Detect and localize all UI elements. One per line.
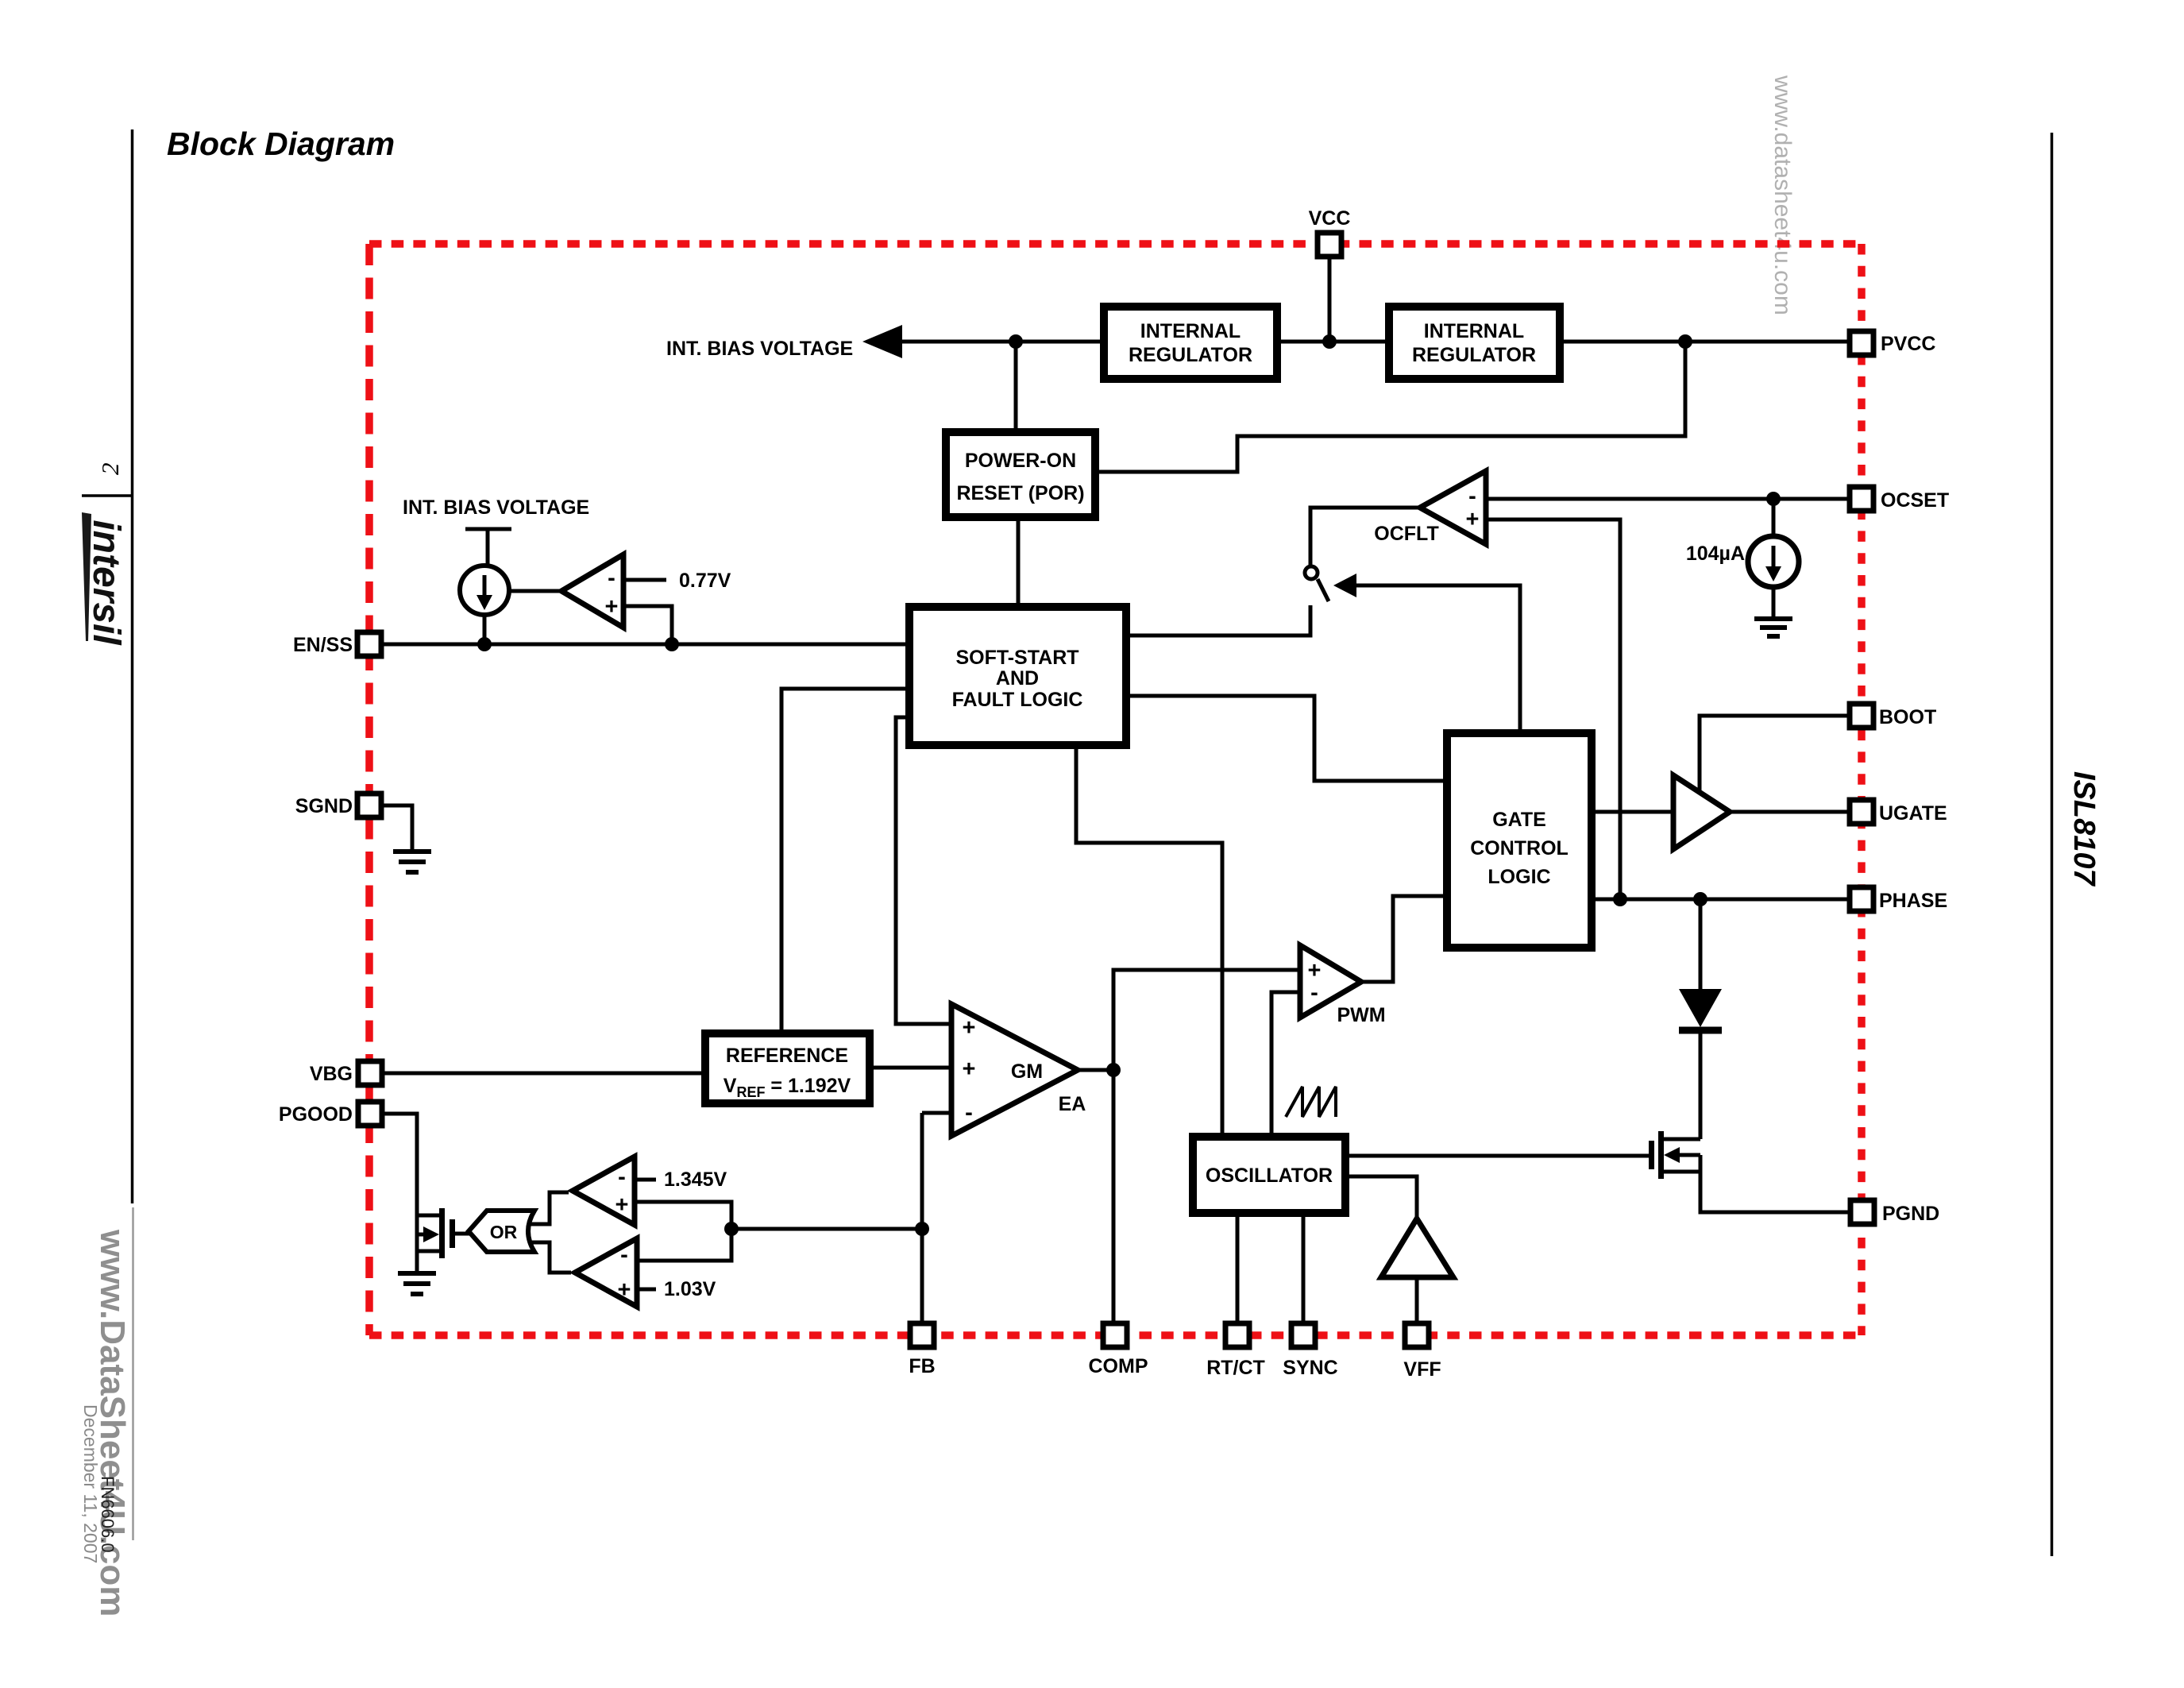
doc number FN6606.0 (rotated) <box>98 1476 118 1553</box>
chip boundary red dashed left <box>365 244 373 1335</box>
wire OCFLT output to switch <box>1310 508 1420 566</box>
svg-text:LOGIC: LOGIC <box>1488 866 1550 888</box>
pin VBG <box>310 1061 382 1085</box>
wire reference to GM mid plus input <box>866 1066 951 1070</box>
svg-text:FAULT LOGIC: FAULT LOGIC <box>952 689 1083 711</box>
pin PGND <box>1850 1200 1939 1225</box>
comparator U11 (1.03V UV) <box>575 1238 637 1307</box>
svg-text:COMP: COMP <box>1089 1355 1148 1377</box>
switch lever <box>1318 579 1329 601</box>
svg-text:INT. BIAS VOLTAGE: INT. BIAS VOLTAGE <box>403 496 589 519</box>
svg-text:SYNC: SYNC <box>1283 1357 1337 1379</box>
wire switch control from gate control logic <box>1355 585 1520 733</box>
wire oscillator to MOSFET gate <box>1345 1154 1649 1158</box>
svg-text:REGULATOR: REGULATOR <box>1412 344 1536 366</box>
pin EN/SS <box>293 632 381 656</box>
pin BOOT <box>1850 704 1936 728</box>
svg-text:SOFT-START: SOFT-START <box>955 647 1078 669</box>
wire soft-start to reference <box>781 689 913 1033</box>
sawtooth waveform <box>1286 1087 1336 1117</box>
svg-text:AND: AND <box>996 667 1039 689</box>
svg-text:VBG: VBG <box>310 1063 353 1085</box>
wire I1 to EN/SS rail <box>483 615 487 644</box>
svg-text:Block Diagram: Block Diagram <box>167 126 395 162</box>
svg-text:+: + <box>963 1056 976 1082</box>
right page rule <box>2051 133 2054 1556</box>
svg-text:GM: GM <box>1011 1060 1043 1083</box>
svg-text:INTERNAL: INTERNAL <box>1140 320 1241 342</box>
svg-text:OSCILLATOR: OSCILLATOR <box>1206 1165 1333 1187</box>
wire GM minus input from FB <box>922 1111 951 1115</box>
wire POR feed from PVCC rail <box>1097 342 1685 472</box>
svg-text:1.345V: 1.345V <box>664 1168 727 1191</box>
svg-text:SGND: SGND <box>295 795 353 817</box>
svg-text:VFF: VFF <box>1403 1358 1441 1381</box>
wire OCSET rail (U4 minus input) <box>1486 497 1850 501</box>
junction dot VCC rail <box>1322 334 1337 349</box>
svg-text:POWER-ON: POWER-ON <box>965 450 1076 472</box>
svg-text:intersil: intersil <box>85 520 127 646</box>
block GATE CONTROL LOGIC <box>1447 733 1592 948</box>
wire oscillator to PWM minus input <box>1271 992 1300 1137</box>
block SOFT-START AND FAULT LOGIC <box>909 607 1126 745</box>
gate U9 OR <box>469 1211 534 1252</box>
pin PVCC <box>1850 331 1935 355</box>
wire U3 plus input to EN/SS rail <box>623 606 672 644</box>
svg-text:UGATE: UGATE <box>1879 802 1947 825</box>
svg-text:OR: OR <box>490 1222 518 1242</box>
svg-text:FB: FB <box>909 1355 935 1377</box>
wire PHASE to diode anode <box>1699 899 1703 990</box>
wire I1 to comparator U3 <box>509 589 561 593</box>
comparator U3 (0.77V enable) <box>561 554 623 628</box>
pin OCSET <box>1850 487 1949 512</box>
wire OR bottom input from comparator U11 <box>528 1242 571 1273</box>
svg-text:PVCC: PVCC <box>1881 333 1935 355</box>
intersil logo (rotated) <box>82 512 127 646</box>
block REFERENCE <box>705 1033 870 1103</box>
wire soft-start to switch pole <box>1122 605 1310 635</box>
pin RT/CT <box>1206 1323 1265 1379</box>
svg-text:-: - <box>618 1165 626 1190</box>
gray hairline <box>132 1207 134 1540</box>
block OSCILLATOR <box>1193 1137 1345 1213</box>
pin SGND <box>295 794 381 817</box>
comparator U4 OCFLT <box>1420 471 1486 544</box>
svg-text:BOOT: BOOT <box>1879 706 1936 728</box>
wire POR bottom to soft-start <box>1017 517 1021 607</box>
svg-text:ISL8107: ISL8107 <box>2067 771 2101 887</box>
transistor Q2 (low-side) <box>1652 1131 1701 1179</box>
wire U11 plus stub <box>637 1288 656 1292</box>
ground SGND <box>393 852 431 872</box>
junction dot POR tap <box>1009 334 1023 349</box>
buffer U5 UGATE driver <box>1673 775 1730 849</box>
wire U10 plus input to FB <box>635 1202 731 1229</box>
svg-text:EN/SS: EN/SS <box>293 634 353 656</box>
watermark www.DataSheet4U.com (rotated, gray) <box>93 1229 132 1617</box>
wire U10 minus stub <box>635 1178 656 1182</box>
svg-text:RESET (POR): RESET (POR) <box>956 482 1084 504</box>
svg-text:-: - <box>965 1100 973 1126</box>
junction dot PVCC tap <box>1678 334 1692 349</box>
wire FB vertical <box>920 1113 924 1323</box>
junction dot I1/EN-SS <box>477 637 492 651</box>
wire soft-start to gate control logic <box>1122 696 1447 781</box>
switch contact circle <box>1305 566 1318 579</box>
svg-text:VCC: VCC <box>1309 207 1351 230</box>
page number 2 (rotated) <box>96 463 124 476</box>
wire EA node to COMP pin <box>1112 1070 1116 1323</box>
wire INT. BIAS VOLTAGE rail <box>901 340 1100 344</box>
wire Q2 drain up to diode <box>1699 1033 1703 1139</box>
junction dot FB <box>915 1222 929 1236</box>
svg-text:EA: EA <box>1059 1093 1086 1115</box>
wire EN/SS rail <box>382 643 913 647</box>
pin UGATE <box>1850 800 1947 825</box>
wire regulator1 to regulator2 <box>1277 340 1389 344</box>
svg-text:PGND: PGND <box>1882 1203 1939 1225</box>
svg-text:CONTROL: CONTROL <box>1470 837 1569 859</box>
svg-text:-: - <box>608 566 615 591</box>
wire EA output <box>1078 1068 1113 1072</box>
comparator U6 PWM <box>1300 945 1361 1018</box>
ground Q1 source <box>398 1273 436 1294</box>
junction dot comparators <box>724 1222 739 1236</box>
block U1 INTERNAL REGULATOR <box>1104 307 1277 379</box>
pin SYNC <box>1283 1323 1337 1379</box>
junction dot PHASE/OCFLT <box>1613 892 1627 906</box>
svg-text:+: + <box>615 1192 629 1218</box>
svg-text:-: - <box>1468 484 1476 509</box>
wire RT/CT to oscillator <box>1236 1213 1240 1323</box>
svg-text:REFERENCE: REFERENCE <box>726 1045 848 1067</box>
pin VFF <box>1403 1323 1441 1381</box>
block U2 INTERNAL REGULATOR <box>1389 307 1560 379</box>
wire SGND to ground <box>382 805 412 850</box>
junction dot U3/EN-SS <box>665 637 679 651</box>
junction dot EA/COMP <box>1106 1063 1121 1077</box>
pin FB <box>909 1323 935 1377</box>
svg-text:+: + <box>618 1277 631 1303</box>
wire U3 minus input stub <box>623 578 666 582</box>
svg-text:+: + <box>605 594 619 620</box>
svg-text:2: 2 <box>96 463 124 476</box>
part number ISL8107 (rotated) <box>2067 771 2101 887</box>
svg-text:RT/CT: RT/CT <box>1206 1357 1265 1379</box>
arrowhead INT. BIAS VOLTAGE <box>862 325 902 358</box>
wire Q2 source to PGND <box>1700 1155 1850 1212</box>
tick above logo <box>82 494 133 497</box>
pin PHASE <box>1850 887 1947 912</box>
comparator U10 (1.345V OV) <box>573 1157 635 1225</box>
block POWER-ON RESET (POR) <box>946 432 1095 517</box>
wire POR top to bias rail <box>1014 342 1018 428</box>
wire SYNC to oscillator <box>1302 1213 1306 1323</box>
wire VCC stub <box>1328 256 1332 342</box>
svg-text:FN6606.0: FN6606.0 <box>98 1476 118 1553</box>
svg-text:104µA: 104µA <box>1686 543 1745 565</box>
wire U5 to UGATE <box>1730 810 1850 814</box>
junction dot PHASE/diode <box>1693 892 1707 906</box>
diode D1 <box>1679 989 1722 1139</box>
svg-text:INTERNAL: INTERNAL <box>1424 320 1524 342</box>
junction dot OCSET <box>1766 492 1781 506</box>
wire VFF pin to buffer <box>1415 1277 1419 1323</box>
svg-text:PGOOD: PGOOD <box>279 1103 353 1126</box>
wire VBG to reference <box>383 1072 705 1076</box>
svg-text:PHASE: PHASE <box>1879 890 1947 912</box>
current source I2 104uA <box>1748 499 1799 617</box>
wire OR top input from comparator U10 <box>528 1192 569 1224</box>
wire PGOOD to Q1 drain <box>383 1114 439 1215</box>
wire PWM output to gate control logic <box>1361 896 1447 982</box>
chip boundary red dashed bottom <box>369 1331 1862 1339</box>
wire gate control to driver U5 <box>1592 810 1673 814</box>
watermark www.datasheet4u.com top right (rotated, light gray) <box>1769 75 1796 315</box>
left page rule <box>131 129 134 1203</box>
svg-text:www.datasheet4u.com: www.datasheet4u.com <box>1769 75 1796 315</box>
ground I2 <box>1754 619 1792 636</box>
wire soft-start to oscillator <box>1076 745 1222 1137</box>
transistor Q1 (PGOOD pull-down) <box>417 1208 470 1272</box>
chip boundary red dashed right <box>1858 244 1866 1335</box>
pin VCC <box>1309 207 1351 257</box>
wire U4 plus input to PHASE <box>1486 520 1620 899</box>
svg-text:-: - <box>1310 980 1318 1006</box>
svg-text:+: + <box>1466 507 1480 532</box>
svg-text:-: - <box>620 1242 628 1268</box>
svg-text:GATE: GATE <box>1492 809 1546 831</box>
wire oscillator to VFF buffer output <box>1345 1176 1417 1220</box>
svg-text:OCSET: OCSET <box>1881 489 1949 512</box>
wire BOOT to driver <box>1700 716 1850 792</box>
T-bar int bias supply <box>465 529 511 566</box>
op-amp U8 GM error amp <box>951 1004 1078 1136</box>
buffer U7 VFF amp <box>1381 1219 1453 1277</box>
wire soft-start to GM plus input <box>896 717 951 1024</box>
svg-text:REGULATOR: REGULATOR <box>1129 344 1252 366</box>
svg-text:1.03V: 1.03V <box>664 1278 716 1300</box>
wire comparators to FB node <box>731 1227 922 1231</box>
wire U11 minus input to FB <box>637 1229 731 1261</box>
svg-text:PWM: PWM <box>1337 1004 1385 1026</box>
wire regulator2 to PVCC <box>1560 340 1850 344</box>
svg-text:INT. BIAS VOLTAGE: INT. BIAS VOLTAGE <box>666 338 853 360</box>
pin PGOOD <box>279 1102 382 1126</box>
svg-text:OCFLT: OCFLT <box>1374 523 1438 545</box>
date December 11, 2007 (rotated, gray) <box>80 1404 101 1563</box>
arrowhead into switch <box>1333 574 1356 597</box>
svg-text:0.77V: 0.77V <box>679 570 731 592</box>
wire EA output to PWM plus input <box>1113 970 1300 1070</box>
wire PHASE rail <box>1592 898 1850 902</box>
pin COMP <box>1089 1323 1148 1377</box>
svg-text:+: + <box>963 1015 976 1041</box>
chip boundary red dashed top <box>369 240 1862 248</box>
current source I1 <box>460 566 509 615</box>
